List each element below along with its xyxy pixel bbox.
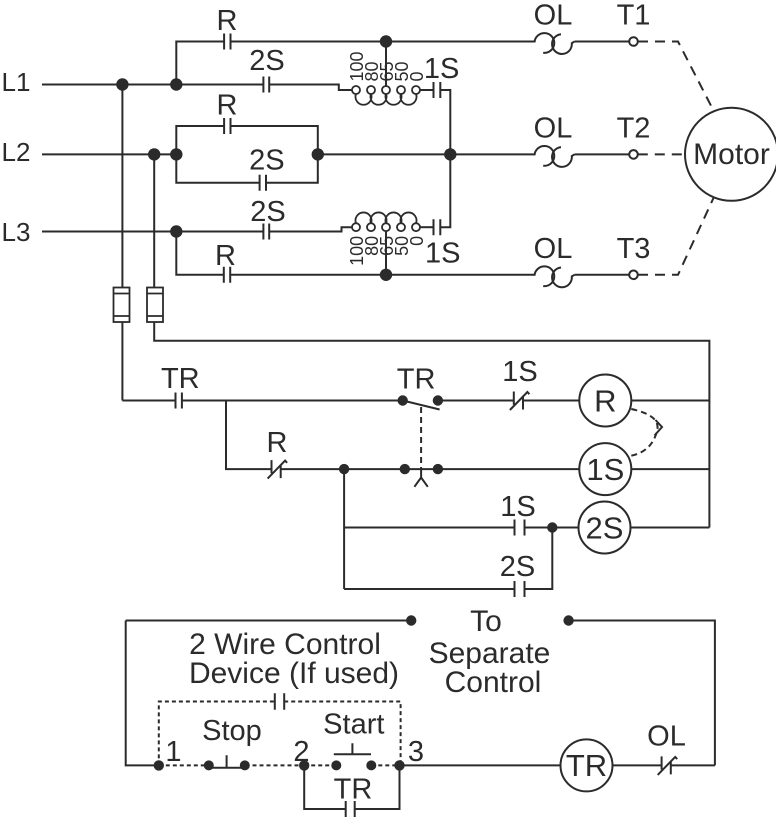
svg-text:1: 1 [165,736,181,768]
terminal T1 [629,37,638,46]
svg-text:OL: OL [534,0,573,32]
coil R [579,375,631,427]
svg-text:OL: OL [534,112,573,144]
wire left rail to fuse1 [121,85,123,288]
wire L3 line [42,227,352,231]
node L3 junction [170,225,182,237]
svg-text:T1: T1 [617,0,651,32]
node rung2 branch junction [339,464,349,474]
wire L2 box bottom branch [176,154,317,182]
wire T2 to motor (dashed) [638,153,685,155]
svg-text:1S: 1S [586,452,624,487]
wire 1S to L2 common [440,90,450,227]
wire TR bypass loop [304,765,399,809]
contact 2S (L3 run) [263,224,269,240]
contact 1S NC (rung1) [510,392,530,411]
wire 2S coil to rail [631,527,710,529]
coil 1S [579,443,631,495]
svg-text:R: R [267,427,288,459]
pushbutton Start [331,743,376,770]
wire tap0 to 1S (upper) [420,89,434,91]
svg-text:2S: 2S [500,551,535,583]
svg-text:1S: 1S [502,356,537,388]
svg-text:L3: L3 [2,217,31,247]
node TR contact left [398,395,408,405]
label 2 Wire Control Device (If used) [189,628,399,690]
terminal T2 [629,150,638,159]
wire L2 rail to fuse2 [153,154,155,287]
contact 2S (rung4) [515,581,525,597]
dashed 2-wire device box [159,702,401,766]
wire OL to T2 [575,153,630,155]
wire bottom box top-right and right rail [569,621,715,766]
contact R (L2 box) [224,118,230,134]
tap value labels 100 80 65 50 0 (lower) [347,236,427,266]
svg-text:1S: 1S [425,237,460,269]
wire R branch row E [176,232,534,275]
svg-text:TR: TR [566,748,607,783]
wire 1S coil to rail [631,468,709,470]
wire L2 line [42,153,176,155]
wire bottom box left rail [126,621,159,766]
wire T3 to motor (dashed) [638,198,714,275]
autotransformer 1S coil (upper) [352,86,420,105]
label To Separate Control [429,605,551,699]
coil TR [561,739,613,791]
node rung2 timer right [433,464,443,474]
node L2 box-right junction [312,148,324,160]
node L2 box-left junction [170,148,182,160]
svg-text:R: R [215,240,236,272]
contact R (row E) [224,267,230,283]
tap value labels 100 80 65 50 0 (upper) [347,51,427,81]
terminal T3 [629,271,638,280]
contact 2S (L1 run) [263,77,269,93]
wire tap0 to 1S (lower) [420,226,434,228]
node L2-rail junction [148,148,160,160]
wire L2 to OL [318,153,535,155]
timed contact TR blade [403,401,440,410]
wire L2 box top branch [176,126,317,154]
wire R branch row A [176,42,534,85]
node L1-rail junction [116,78,128,90]
contact R (row A) [224,34,230,50]
wire OL to T3 [575,274,630,276]
wire autotransformer1 center tap [385,42,387,87]
fuse F1 [114,288,130,323]
overload heater OL T2 [535,146,575,167]
node terminal 1 [154,760,164,770]
svg-text:TR: TR [161,363,200,395]
autotransformer 2S coil (lower) [352,212,420,231]
wire rung2 [281,468,580,470]
svg-text:L1: L1 [2,67,31,97]
svg-text:R: R [217,5,238,37]
overload heater OL T1 [535,33,575,54]
wire fuse2 to top rail and right rail [154,322,709,528]
wire rung4 [344,528,552,590]
svg-text:Device (If used): Device (If used) [189,657,399,690]
fuse F2 [147,288,163,323]
contact 1S (lower) [434,219,441,235]
node autotransformer1 tap junction [380,35,392,47]
wire 3 to TR coil [400,764,561,766]
timer actuator chevron [414,469,427,487]
wire dashed start to 3 [371,764,399,766]
contact OL NC (bottom) [658,756,678,775]
contact TR (bypass) [346,801,355,817]
node rung3 junction [547,522,557,532]
svg-text:T2: T2 [617,112,651,144]
svg-text:1S: 1S [424,53,459,85]
wire fuse1 to rung1 [121,322,123,401]
node rung2 timer left [400,464,410,474]
wire dashed 2 to start [304,764,336,766]
node separate-control terminal right [563,615,573,625]
contact 2S (L2 box) [260,175,266,191]
contact 2-wire device [275,693,284,709]
wire dashed stop to 2 [246,764,305,766]
wire OL to right rail [671,764,715,766]
wire rung1 to rung2 branch [226,401,272,470]
svg-text:2: 2 [293,736,309,768]
contact 1S (upper) [434,82,441,98]
wire R coil to rail [631,400,709,402]
svg-text:0: 0 [407,236,427,246]
wire rung2 to rung4 vertical [343,469,345,589]
svg-text:Start: Start [323,709,384,741]
wire TR coil to OL [613,764,662,766]
motor M [685,108,776,201]
svg-text:2S: 2S [249,144,284,176]
svg-text:Control: Control [445,666,542,699]
node L2 common junction [444,148,456,160]
svg-text:2S: 2S [249,45,284,77]
svg-text:OL: OL [534,233,573,265]
mechanical link arrow [655,420,663,436]
wire OL to T1 [575,41,630,43]
wire L1 line [42,85,352,91]
node TR contact right [433,395,443,405]
wire autotransformer2 center tap [385,231,387,275]
svg-text:Stop: Stop [202,715,262,747]
node terminal 3 [394,760,404,770]
wire T1 to motor (dashed) [638,42,714,111]
svg-text:2S: 2S [250,196,285,228]
contact R NC (rung2) [268,460,288,479]
svg-text:R: R [594,384,616,419]
svg-text:OL: OL [647,721,686,753]
node terminal 2 [299,760,309,770]
svg-text:3: 3 [408,736,424,768]
svg-text:To: To [470,605,502,638]
svg-text:T3: T3 [617,233,651,265]
contact TR (rung1) [176,393,182,409]
dashed timer link [420,407,422,469]
svg-text:1S: 1S [500,491,535,523]
svg-text:Motor: Motor [693,138,770,171]
svg-text:L2: L2 [2,137,31,167]
pushbutton Stop [204,755,250,770]
contact 1S (rung3) [515,520,525,536]
svg-text:TR: TR [334,774,373,806]
wire rung3 [344,527,578,529]
overload heater OL T3 [535,266,575,287]
svg-text:TR: TR [397,364,436,396]
wire rung1 left [122,400,402,402]
coil 2S [579,502,631,554]
node autotransformer2 tap junction [380,269,392,281]
wire bottom box top-left [126,620,412,622]
mechanical link R-1S (dashed) [630,409,658,456]
node separate-control terminal left [406,615,416,625]
wire dashed 1 to stop [159,764,208,766]
node L1-branch junction [170,78,182,90]
wire rung1 right [438,400,579,402]
svg-text:R: R [217,90,238,122]
svg-text:2S: 2S [586,511,624,546]
